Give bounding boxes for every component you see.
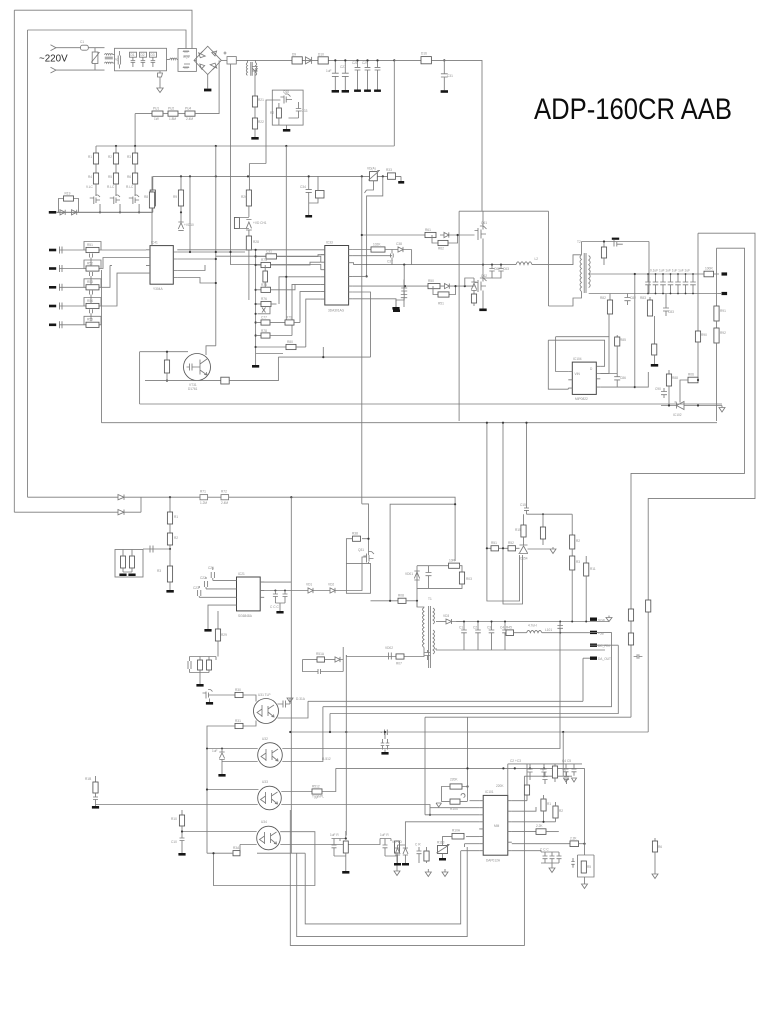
aux components below T2 : resistor R82 <box>609 294 611 301</box>
rc cluster B chassis arrow <box>394 853 400 876</box>
gate diode VD22 <box>330 588 335 593</box>
bridge diode glyph SE <box>210 63 217 70</box>
bank row2 resistor B <box>285 320 294 325</box>
gnd bar C65 <box>393 310 400 313</box>
svg-text:C77: C77 <box>261 316 267 320</box>
resistor RB2 <box>113 173 118 184</box>
svg-text:IC102: IC102 <box>673 413 682 417</box>
svg-text:C62: C62 <box>494 267 500 271</box>
svg-text:1uF: 1uF <box>212 749 218 753</box>
terminal +B <box>722 272 728 275</box>
bank bus dots <box>255 249 257 251</box>
resistor R131 <box>541 799 546 811</box>
source row dots <box>99 211 101 213</box>
bank row1 wire and resistor <box>256 303 261 305</box>
mid rail resistor R45 <box>506 630 514 636</box>
riser x617 resistor R85 <box>616 335 618 337</box>
pol cap C162 <box>564 772 569 784</box>
svg-text:C2: C2 <box>473 626 477 630</box>
svg-text:R2: R2 <box>576 539 580 543</box>
svg-text:DA_OUT: DA_OUT <box>598 657 611 661</box>
T1 secondary <box>433 608 435 654</box>
dot x366 pin4 <box>366 275 368 277</box>
connector label SGB <box>590 618 597 621</box>
svg-text:V.LC: V.LC <box>86 185 93 189</box>
VT31 internals <box>187 359 208 375</box>
ladder row1 cap <box>60 247 63 254</box>
upper gate diode VD61 <box>440 232 458 237</box>
startup MOSFET Q10 <box>280 94 292 104</box>
mid chain ground <box>169 582 171 590</box>
svg-text:R51: R51 <box>87 243 93 247</box>
pin4 wire right <box>353 275 367 277</box>
wire PU2 to PU4 <box>178 113 185 115</box>
staircase leg x286 <box>285 277 287 323</box>
caps cluster y842 <box>512 851 541 852</box>
pin4 wire y821 <box>405 822 479 845</box>
bank row4 wire and resistor <box>256 346 286 348</box>
cap C86 <box>614 374 620 388</box>
cap C110 <box>557 622 563 633</box>
lower gate wire y287 <box>353 285 428 287</box>
rail to aux transformer <box>236 59 394 61</box>
feed vertical to lower rail x394 <box>393 60 395 146</box>
IC33 box <box>325 246 349 306</box>
wire PU row drop to columns rail <box>134 114 136 146</box>
nested U line inner <box>257 851 461 924</box>
zener VD01 <box>414 571 419 580</box>
svg-text:VD3: VD3 <box>443 614 449 618</box>
upper gate wire y235 <box>362 234 425 236</box>
svg-text:L101: L101 <box>545 628 552 632</box>
R32 tail and zener VD10 <box>178 206 183 231</box>
opto2 internals <box>261 749 278 761</box>
svg-text:DC_FIN: DC_FIN <box>598 644 610 648</box>
resistor R72 on y497 <box>221 495 229 500</box>
upper fet source to mid <box>482 239 484 265</box>
dot y212 x181 <box>180 211 182 213</box>
svg-text:C1: C1 <box>80 40 84 44</box>
main rail after bridge <box>221 59 227 61</box>
ground bar C27 <box>342 90 349 93</box>
wire fuse to choke <box>88 48 104 52</box>
resistor R06 right <box>688 377 698 383</box>
svg-text:R10: R10 <box>171 817 177 821</box>
T2 aux rectifier area diode VD80 <box>614 240 623 247</box>
IC21 out pin wire <box>260 590 308 592</box>
ladder feed vertical x101 <box>101 270 103 423</box>
snubber cap C71 <box>612 238 619 240</box>
feed from T2 to IC104 pin x609 <box>608 314 610 337</box>
svg-text:R28: R28 <box>253 240 259 244</box>
svg-text:R85: R85 <box>620 338 626 342</box>
svg-text:VD1: VD1 <box>306 583 312 587</box>
cap D1 plates <box>131 57 136 67</box>
svg-text:U32: U32 <box>262 737 268 741</box>
feed vertical to C150 <box>526 423 528 506</box>
resistor R26 vertical <box>246 190 251 206</box>
svg-text:R54: R54 <box>87 299 93 303</box>
aux cap C82 <box>624 294 630 306</box>
wire coil2 to RQ1 box <box>177 59 178 61</box>
wire PU4 to riser <box>195 60 219 113</box>
aux transformer T3 winding left <box>246 63 247 76</box>
opto3 top right wire resistor R311 <box>281 791 312 793</box>
IC101 right pin stubs <box>508 801 512 851</box>
lower fet drain stub <box>482 265 484 282</box>
transformer T2 secondary <box>589 256 591 288</box>
nested U line middle <box>297 847 468 937</box>
IC104 left pin stubs <box>568 372 572 389</box>
line y706 <box>323 632 612 706</box>
svg-text:R15: R15 <box>515 528 521 532</box>
zener VD9 <box>246 220 252 231</box>
wire box to coil2 <box>167 59 170 61</box>
chain top corner <box>248 164 250 191</box>
ladder row4 cap <box>60 303 63 310</box>
svg-text:R10A: R10A <box>452 829 461 833</box>
choke F0 winding bottom <box>105 62 113 63</box>
wire diode to link node <box>124 511 141 513</box>
svg-text:D9: D9 <box>292 53 296 57</box>
svg-text:C22: C22 <box>200 576 206 580</box>
svg-text:C10: C10 <box>171 840 177 844</box>
wire y497 diode to resistors <box>124 496 200 498</box>
ground bar C26 <box>332 90 339 93</box>
snubber cap C01 <box>426 566 432 589</box>
ladder row3 resistor <box>86 285 99 290</box>
resistor R71 on y497 <box>200 495 208 500</box>
IC41 box <box>150 246 173 285</box>
column2 mid wire <box>115 164 117 173</box>
ladder row2 ground bar <box>49 267 56 270</box>
IC21 pin3 wire and cap C23 <box>198 590 233 597</box>
inductor L2 <box>516 262 532 265</box>
ground bar under lower fet <box>479 309 486 312</box>
svg-text:+VD10: +VD10 <box>184 223 194 227</box>
svg-text:C15: C15 <box>520 503 526 507</box>
cluster box left <box>115 550 143 578</box>
pin wire y262 elbow to y264 <box>352 263 355 265</box>
ladder row1 ground bar <box>49 249 56 252</box>
opto1 circle U1 <box>254 699 279 724</box>
wire PU row from left corner <box>135 113 152 115</box>
opto2 zener C160 <box>219 749 224 762</box>
svg-text:C86: C86 <box>620 376 626 380</box>
svg-text:R3: R3 <box>127 155 131 159</box>
T1 core <box>429 606 431 668</box>
IC21 left pin stubs <box>233 580 237 605</box>
svg-text:C29: C29 <box>362 61 368 65</box>
svg-text:C1: C1 <box>459 626 463 630</box>
wire box to T1 region <box>370 577 372 579</box>
svg-text:D3: D3 <box>151 53 155 57</box>
ladder row3 loop arc <box>84 279 101 288</box>
svg-text:R104: R104 <box>450 807 458 811</box>
svg-text:VD01: VD01 <box>405 572 413 576</box>
svg-text:MIP0822: MIP0822 <box>575 397 588 401</box>
resistor RC2 <box>133 173 138 184</box>
plus mark at bridge output <box>224 52 227 55</box>
snubber resistor R71 <box>603 242 605 248</box>
IC33 left pin stubs <box>321 255 325 299</box>
startup ground bar <box>286 125 288 129</box>
column 1 wire <box>95 146 97 153</box>
snubber resistor R02 <box>449 563 460 568</box>
sense cap <box>318 669 343 674</box>
aux transformer T3 core <box>251 62 252 76</box>
chain resistor R28 <box>248 230 250 236</box>
column 2 wire <box>115 146 117 153</box>
ladder row2 loop arc <box>84 260 101 269</box>
right side resistor R130 <box>512 795 527 801</box>
wire cluster to chain <box>143 546 170 553</box>
pin wire y292 riser x370 <box>353 292 371 357</box>
svg-text:R06: R06 <box>688 373 694 377</box>
left cluster2 resistor R320 <box>181 810 183 815</box>
ladder inter-row caps <box>90 254 93 322</box>
bank row2 wire <box>256 322 261 324</box>
ground bar C28 <box>354 90 361 92</box>
svg-text:220K: 220K <box>450 778 458 782</box>
feedback line y701 <box>308 658 590 701</box>
cluster wires <box>123 550 132 573</box>
output caps row <box>461 622 467 651</box>
aux transformer T3 winding right <box>256 63 257 76</box>
svg-text:3DA301AG: 3DA301AG <box>328 309 345 313</box>
bank row2 resistor A <box>261 320 270 325</box>
long line y404 <box>140 352 722 404</box>
resistor R16 on rail right <box>421 57 431 64</box>
ground bar C29 <box>364 90 371 92</box>
X-cap filter box <box>115 48 167 71</box>
bank row2 wire mid <box>270 322 285 324</box>
pin2 wire loop <box>353 255 392 257</box>
upper gate loop resistor R62 <box>432 235 458 243</box>
transformer T2 core <box>584 253 586 293</box>
half-bridge enclosure right <box>548 211 550 264</box>
IC101 left pin stubs <box>479 801 483 851</box>
VT top wire <box>140 351 188 353</box>
svg-text:R.LC: R.LC <box>126 185 134 189</box>
pin wire y843 long <box>512 843 570 845</box>
svg-text:220K: 220K <box>496 784 504 788</box>
svg-text:C33: C33 <box>302 109 308 113</box>
bank row2 wire end <box>294 322 300 324</box>
stub RQ1 ground <box>207 75 209 89</box>
wire RQ1 to bridge <box>194 59 196 61</box>
svg-text:VD2: VD2 <box>328 583 334 587</box>
svg-text:D1761: D1761 <box>188 387 198 391</box>
upper fet drain stub <box>482 211 484 229</box>
resistor R136 x655 <box>654 838 656 841</box>
wire zener to bus <box>661 405 722 407</box>
svg-text:L2: L2 <box>535 257 539 261</box>
svg-text:R55: R55 <box>87 318 93 322</box>
svg-text:R.LC: R.LC <box>107 185 115 189</box>
mid rail dots <box>115 145 117 147</box>
IC154 right wire and chassis arrow <box>528 514 557 553</box>
svg-text:R33: R33 <box>386 168 392 172</box>
cap C27 electrolytic <box>342 60 349 90</box>
T1 drive FET Q31 <box>363 552 374 563</box>
sense lower run <box>303 660 319 672</box>
opto3 internals <box>261 792 278 804</box>
pin wire y821 right <box>512 821 556 823</box>
ladder row1 resistor <box>86 247 99 252</box>
svg-text:VD VD: VD VD <box>392 840 402 844</box>
secondary bottom rail y293 <box>589 293 718 295</box>
diode C38 after resistor <box>385 247 412 252</box>
opto3 top left wire <box>207 789 259 791</box>
svg-text:R03: R03 <box>466 577 472 581</box>
svg-text:MM: MM <box>494 824 500 828</box>
svg-text:+C: +C <box>562 768 567 772</box>
svg-text:2.2K: 2.2K <box>536 824 543 828</box>
bridge diode glyph NW <box>199 51 206 58</box>
long line y405 mid segment <box>647 371 649 373</box>
resistor RB1 <box>113 153 118 164</box>
resistor R13 on rail <box>292 57 302 64</box>
sense loop with resistor R19 <box>59 199 79 213</box>
wire to second diode <box>313 590 330 592</box>
svg-text:R07: R07 <box>396 662 402 666</box>
IC41 left pin stubs <box>146 250 150 273</box>
wire y497 to corner x455 <box>229 497 456 561</box>
svg-text:ADP-160CR AAB: ADP-160CR AAB <box>534 93 732 126</box>
pin6 wire resistor R10A <box>466 836 479 838</box>
caps row y764 wire <box>508 763 582 765</box>
cap C29 <box>365 60 371 89</box>
wire to hv bus corner <box>431 60 482 211</box>
sense diode VD5 <box>60 210 65 215</box>
ladder row5 cap <box>60 321 63 328</box>
svg-text:R21: R21 <box>258 98 264 102</box>
svg-text:R61: R61 <box>425 228 431 232</box>
rc cluster B <box>380 839 397 857</box>
ladder row5 ground bar <box>49 324 56 327</box>
svg-text:R45: R45 <box>506 626 512 630</box>
svg-text:R82: R82 <box>600 296 606 300</box>
svg-text:1uF R: 1uF R <box>330 833 339 837</box>
opto2 cluster ground <box>221 762 223 775</box>
resistor R120 <box>552 766 557 778</box>
column2 to fet <box>115 184 117 196</box>
svg-text:C83: C83 <box>668 310 674 314</box>
svg-text:R-512: R-512 <box>322 757 331 761</box>
opto3 bottom left wire to left cluster <box>100 804 258 806</box>
riser x572 from y514 <box>571 514 573 535</box>
source row link to y212 <box>57 211 153 213</box>
svg-text:F0: F0 <box>115 58 119 62</box>
gate protection diode VD63 <box>471 278 476 294</box>
inductor L0 second stage <box>170 58 177 60</box>
svg-text:T2: T2 <box>577 240 581 244</box>
inner loop wire left vertical <box>27 30 29 497</box>
opto3 bottom right wire <box>281 805 430 815</box>
resistor R27 small <box>234 218 239 229</box>
wire L101 out <box>542 632 588 634</box>
svg-text:R1: R1 <box>547 802 551 806</box>
resistor R104 <box>450 799 460 804</box>
T1 primary in <box>417 601 424 608</box>
nested corner inner right <box>631 248 745 717</box>
sense box below Q31 <box>346 564 370 594</box>
Q32 ground <box>209 699 211 703</box>
svg-text:R3: R3 <box>157 569 161 573</box>
svg-text:C4: C4 <box>500 626 504 630</box>
svg-text:SGB: SGB <box>598 619 605 623</box>
svg-text:R83: R83 <box>640 296 646 300</box>
svg-text:PU1: PU1 <box>153 107 159 111</box>
cap C37 on loop <box>391 250 394 265</box>
svg-text:R2: R2 <box>108 155 112 159</box>
IC21 right pin stubs <box>260 582 264 597</box>
column 3 wire <box>134 146 136 153</box>
svg-text:102K: 102K <box>373 243 381 247</box>
IC101 box <box>483 795 508 855</box>
ladder row3 cap <box>60 284 63 291</box>
svg-text:R3A: R3A <box>233 846 240 850</box>
svg-text:R1: R1 <box>88 155 92 159</box>
bank row1 loop diode <box>258 307 271 314</box>
IC102 riser x669 resistor <box>668 370 670 374</box>
pol cap C34 below y176 <box>306 176 312 215</box>
startup cap C33 <box>289 102 302 118</box>
svg-text:Y304A: Y304A <box>153 287 163 291</box>
svg-text:R4: R4 <box>88 175 92 179</box>
svg-text:4.7uH: 4.7uH <box>528 624 537 628</box>
wire jog y504 to x390 <box>390 504 455 601</box>
svg-text:IC33: IC33 <box>326 241 333 245</box>
nested U line outer <box>290 776 524 945</box>
cap C140 <box>634 654 643 658</box>
film cap D3 box <box>150 52 157 57</box>
line y776 <box>524 775 572 777</box>
pair verticals to jog <box>487 548 523 604</box>
svg-text:C3: C3 <box>487 626 491 630</box>
svg-text:R51A: R51A <box>316 652 325 656</box>
svg-text:C21: C21 <box>208 566 214 570</box>
IC21 right pin1 riser <box>260 581 291 583</box>
rc cluster A ground <box>342 871 349 874</box>
jog wire to chain top <box>249 163 266 165</box>
aux transformer T3 stubs <box>248 60 256 62</box>
y176 left leg with resistor R31 <box>152 176 154 190</box>
VT base resistor R35 <box>166 352 168 360</box>
startup chain ground bar <box>254 129 256 137</box>
opto2 bottom right wire <box>282 707 323 762</box>
fet source stubs <box>100 204 139 212</box>
ground bar under RQ1 <box>204 89 211 92</box>
long wire y264 to half bridge <box>354 264 517 266</box>
opto1 cathode resistor R302 <box>243 721 256 727</box>
svg-text:R31: R31 <box>235 719 241 723</box>
svg-text:C4 C5: C4 C5 <box>562 759 571 763</box>
svg-text:R38: R38 <box>352 532 358 536</box>
bank bus x255 <box>255 250 257 365</box>
svg-text:TggrkPL: TggrkPL <box>312 795 324 799</box>
IC104 loop rect B left <box>556 337 569 372</box>
lower gate diode VD62 <box>440 284 475 289</box>
connector stub wires <box>588 632 590 634</box>
RQ1 inner windings <box>183 51 190 68</box>
discharge resistor glyph under box <box>158 71 163 77</box>
svg-text:R26: R26 <box>241 195 247 199</box>
resistor R92 on x716 <box>716 321 718 328</box>
svg-text:R2: R2 <box>174 536 178 540</box>
chassis arrow R135 <box>582 884 588 889</box>
